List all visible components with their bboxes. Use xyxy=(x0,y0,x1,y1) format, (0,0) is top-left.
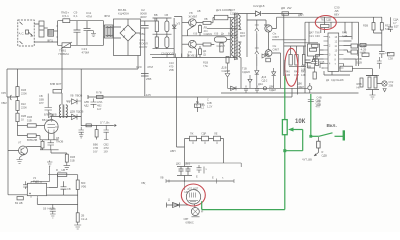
resistor R6 xyxy=(203,43,211,46)
switch resistor wire xyxy=(317,137,319,141)
V8 emitter xyxy=(188,26,195,36)
ladder top bus xyxy=(153,18,172,21)
svg-text:ХР6: ХР6 xyxy=(1,91,6,95)
svg-text:R6В: R6В xyxy=(357,82,362,86)
plug T bar xyxy=(343,130,345,140)
svg-text:ЗООУ: ЗООУ xyxy=(139,45,147,49)
diode D2B xyxy=(231,86,237,90)
anode feed stub xyxy=(197,97,199,104)
svg-text:51В: 51В xyxy=(70,159,75,163)
svg-text:СУ2: СУ2 xyxy=(389,80,394,84)
far right drops xyxy=(374,17,391,27)
svg-text:СДА: СДА xyxy=(393,18,399,22)
transistor V8 internals xyxy=(191,20,194,26)
R63 vertical xyxy=(360,78,363,87)
bridge rectifier box xyxy=(114,19,141,56)
svg-text:ПК: ПК xyxy=(190,132,194,136)
svg-text:ТК6: ТК6 xyxy=(315,31,320,35)
junction dot xyxy=(283,149,286,152)
resistor R45 xyxy=(316,59,319,66)
svg-text:2W: 2W xyxy=(287,6,292,10)
wire module to FL1 xyxy=(44,27,48,29)
VL1 internals xyxy=(185,182,199,202)
svg-text:R ПК: R ПК xyxy=(96,91,102,95)
svg-text:7: 7 xyxy=(335,63,337,66)
cap C42 xyxy=(308,100,314,102)
svg-text:СВ: СВ xyxy=(39,94,43,98)
right small box СДВ xyxy=(351,50,358,54)
V8 collector wire xyxy=(196,22,203,24)
fusible resistor F2 xyxy=(202,136,209,141)
grid wire xyxy=(18,125,28,127)
ground R15 xyxy=(64,162,71,170)
svg-text:Дх: Дх xyxy=(221,32,225,36)
Q5 Q6 wires xyxy=(264,14,303,89)
box top wire xyxy=(31,166,50,181)
T1 primary leads xyxy=(233,18,234,58)
svg-text:С20: С20 xyxy=(136,65,142,69)
XS2 triangle xyxy=(383,89,386,92)
svg-text:СхЕМ1: СхЕМ1 xyxy=(204,32,213,36)
svg-text:х.: х. xyxy=(222,177,224,180)
svg-text:СДЕ: СДЕ xyxy=(326,18,332,22)
svg-text:ДВП: ДВП xyxy=(298,13,303,17)
svg-text:47М: 47М xyxy=(86,15,92,19)
small rect C38 xyxy=(388,53,395,56)
diode V24 xyxy=(66,99,81,104)
svg-text:ДВ6: ДВ6 xyxy=(269,85,274,89)
diode D18 xyxy=(256,11,261,16)
transistor V10 circle xyxy=(189,40,197,48)
svg-text:1кУ: 1кУ xyxy=(97,107,102,111)
caps cluster C78 C79 xyxy=(177,167,192,183)
svg-text:Д: Д xyxy=(168,198,170,202)
svg-text:ЛЕ: ЛЕ xyxy=(214,132,218,136)
ground x77 xyxy=(74,222,81,229)
black feed above green xyxy=(284,60,286,76)
svg-text:Д47: Д47 xyxy=(309,31,314,35)
filter FL1 xyxy=(48,29,54,36)
resistor R60 xyxy=(76,180,79,190)
resistor drop xyxy=(96,125,98,129)
secondary h-wire w2 xyxy=(284,42,319,44)
filter FL2 xyxy=(105,25,114,38)
svg-text:НВП: НВП xyxy=(170,149,176,153)
cap CC2 xyxy=(255,86,259,94)
resistor R54 xyxy=(372,23,375,31)
control left vertical xyxy=(174,17,182,58)
svg-text:R45: R45 xyxy=(320,60,325,64)
R66 top bus xyxy=(366,75,379,77)
svg-text:51В: 51В xyxy=(27,119,32,123)
surge module box xyxy=(39,21,44,37)
svg-text:Д2А: Д2А xyxy=(258,82,263,86)
svg-text:СД-УАН28: СД-УАН28 xyxy=(331,78,344,82)
svg-text:Д1В: Д1В xyxy=(222,66,227,70)
svg-text:ПАОВ: ПАОВ xyxy=(56,140,64,144)
svg-text:11: 11 xyxy=(335,45,338,48)
svg-text:4: 4 xyxy=(329,63,331,66)
resistor under switch xyxy=(317,141,320,148)
svg-text:ЛВ: ЛВ xyxy=(70,94,74,98)
svg-text:СхЕМ7: СхЕМ7 xyxy=(217,44,226,48)
tube VL1 envelope xyxy=(186,190,200,204)
vertical x77 xyxy=(77,175,79,180)
resistor R22 xyxy=(17,96,19,100)
cap drop 2 xyxy=(104,125,109,139)
rect below C3B xyxy=(313,72,316,79)
svg-text:ОМ7: ОМ7 xyxy=(273,35,280,39)
svg-text:МЛТ: МЛТ xyxy=(56,82,62,86)
svg-text:С21: С21 xyxy=(309,34,314,38)
svg-text:ПОВ2Н: ПОВ2Н xyxy=(59,52,69,56)
svg-text:A.C.: A.C. xyxy=(19,32,25,36)
svg-text:ЧУТ_ВВ: ЧУТ_ВВ xyxy=(302,158,312,162)
control wire y28.7 xyxy=(207,28,237,30)
svg-text:Вх: Вх xyxy=(228,32,232,36)
svg-text:V7: V7 xyxy=(18,141,22,145)
svg-text:R: R xyxy=(322,150,324,154)
svg-text:КЦ405А: КЦ405А xyxy=(118,12,129,16)
svg-text:400У: 400У xyxy=(140,15,147,19)
IC box KA1 xyxy=(27,183,46,195)
row end drops xyxy=(185,139,224,164)
V10 base wire xyxy=(182,43,189,45)
IC DA2 body xyxy=(328,33,339,71)
wire box bottom to x77 xyxy=(47,194,78,196)
wire AC to module xyxy=(34,24,57,42)
primary loop wires xyxy=(57,21,104,46)
svg-text:Д2: Д2 xyxy=(326,78,330,82)
svg-text:Е: Е xyxy=(212,176,214,180)
zener VD2 xyxy=(255,48,259,57)
cap C40 xyxy=(388,27,393,32)
transistor Q6 xyxy=(265,50,272,57)
zener VD1 xyxy=(255,25,259,34)
fusible row bus xyxy=(185,138,224,140)
resistor R2 xyxy=(214,15,228,19)
svg-text:СВ: СВ xyxy=(67,187,71,191)
fusible resistor F3 xyxy=(214,136,221,141)
tube right cluster xyxy=(197,165,205,174)
R66 ground xyxy=(370,95,376,99)
pre-IC resistor xyxy=(310,48,317,51)
resistor R61 xyxy=(76,213,79,222)
svg-text:4,7: 4,7 xyxy=(393,21,397,25)
svg-text:ГДР: ГДР xyxy=(202,132,207,136)
plug prong top xyxy=(20,22,23,25)
T2 core xyxy=(62,105,65,119)
transformer T1 core xyxy=(235,13,237,60)
svg-text:ВВ6: ВВ6 xyxy=(93,143,98,147)
bottom bus right block xyxy=(221,92,359,94)
R5 to R2 xyxy=(211,18,214,23)
resistor Ra vertical xyxy=(199,24,201,25)
svg-text:Вх: Вх xyxy=(196,100,200,104)
svg-text:(2): (2) xyxy=(203,52,206,56)
svg-text:ЗА: ЗА xyxy=(202,103,206,107)
secondary h-wire w3 xyxy=(284,45,307,47)
svg-text:47М: 47М xyxy=(93,146,98,150)
svg-text:10В: 10В xyxy=(207,101,212,105)
green circuit xyxy=(202,60,344,210)
left L wire xyxy=(8,151,27,195)
cap on mid bus xyxy=(91,99,97,109)
transistor V8 circle xyxy=(189,19,197,27)
IC bottom wire xyxy=(324,71,350,75)
potentiometer 10K body xyxy=(282,120,287,135)
svg-text:ПДОВ: ПДОВ xyxy=(76,110,84,114)
svg-text:СВТ: СВТ xyxy=(184,217,189,221)
bus resistor R19b xyxy=(97,95,104,98)
svg-text:ХВ(: ХВ( xyxy=(141,181,145,185)
VL1 base circle xyxy=(191,208,199,216)
svg-text:УФБ: УФБ xyxy=(81,185,87,189)
resistor bottom bus xyxy=(289,66,306,94)
diode D16 xyxy=(255,66,259,88)
svg-text:1: 1 xyxy=(329,36,331,39)
capacitor C17 xyxy=(141,21,149,96)
node circle xyxy=(263,87,266,90)
tube top wire xyxy=(51,117,81,120)
diode left of tube xyxy=(167,203,189,208)
right block outer box xyxy=(305,22,359,93)
svg-text:Х.В: Х.В xyxy=(214,32,218,36)
control mid bus xyxy=(182,35,237,37)
svg-text:220К: 220К xyxy=(21,106,27,110)
svg-text:СхЕМ8: СхЕМ8 xyxy=(222,69,231,73)
right vertical x81 xyxy=(80,69,82,126)
svg-text:МЛОВ: МЛОВ xyxy=(49,113,57,117)
svg-text:47М: 47М xyxy=(147,65,153,69)
red ellipse bottom xyxy=(181,184,205,206)
svg-text:АВ: АВ xyxy=(197,9,201,13)
cap C3B xyxy=(311,58,318,72)
ladder mid tap xyxy=(153,33,172,35)
cap to ground xyxy=(50,204,56,218)
tube V1 internals xyxy=(48,120,59,134)
green switch feed xyxy=(310,94,312,136)
svg-text:С3В: С3В xyxy=(307,61,312,65)
diode D17 column xyxy=(272,68,276,88)
svg-text:4В2: 4В2 xyxy=(97,104,102,108)
resistor R57 xyxy=(380,23,383,31)
IC pins left xyxy=(324,37,329,69)
resistor R9 xyxy=(156,32,158,37)
svg-text:+125: +125 xyxy=(144,93,151,97)
svg-text:ДК2: ДК2 xyxy=(186,162,191,166)
capacitor C19 xyxy=(166,32,168,37)
left top bus xyxy=(7,56,138,70)
primary bus bottom xyxy=(152,57,237,59)
svg-text:0,1: 0,1 xyxy=(74,14,79,18)
cap C8 column xyxy=(45,94,52,113)
resistor R15 xyxy=(65,154,68,162)
svg-text:R5В: R5В xyxy=(363,24,368,28)
V10 emitter xyxy=(194,47,196,57)
svg-text:Т2: Т2 xyxy=(67,100,71,104)
svg-text:Д2В: Д2В xyxy=(70,110,75,114)
potentiometer wiper arrow xyxy=(291,129,303,131)
R row 53 xyxy=(362,53,369,56)
svg-text:R40: R40 xyxy=(285,70,290,74)
capacitor C20 xyxy=(141,74,149,77)
resistor Rk xyxy=(41,141,44,148)
svg-text:1РУ: 1РУ xyxy=(39,101,44,105)
svg-text:2В: 2В xyxy=(81,214,84,218)
switch wire xyxy=(311,135,319,137)
svg-text:Е: Е xyxy=(196,175,198,179)
wire to R66 pair xyxy=(344,64,373,76)
secondary inner loop xyxy=(247,20,266,25)
svg-text:13: 13 xyxy=(335,36,338,39)
svg-text:470: 470 xyxy=(169,65,174,69)
AC input box xyxy=(18,20,34,46)
svg-text:Х.В: Х.В xyxy=(193,32,197,36)
svg-text:Т1В: Т1В xyxy=(242,67,247,71)
svg-text:СВ: СВ xyxy=(165,13,169,17)
lower secondary wire xyxy=(228,87,308,89)
svg-text:ХВМ: ХВМ xyxy=(1,101,7,105)
grommet node xyxy=(308,86,312,90)
filament rail xyxy=(81,124,113,126)
zener column wires xyxy=(256,34,258,66)
svg-text:16У: 16У xyxy=(104,150,109,154)
svg-text:Д21: Д21 xyxy=(216,8,222,12)
svg-text:25В: 25В xyxy=(169,68,174,72)
svg-text:12: 12 xyxy=(335,41,338,44)
row ticks xyxy=(193,142,217,145)
ladder lower wire xyxy=(150,54,174,56)
svg-text:220К: 220К xyxy=(21,92,27,96)
svg-text:ДК2: ДК2 xyxy=(176,162,181,166)
cathode cluster top bus xyxy=(40,134,59,140)
ladder bottom bus xyxy=(153,18,175,57)
svg-text:1Г Г_Вх: 1Г Г_Вх xyxy=(100,121,110,125)
T1 secondary winding top xyxy=(238,15,240,29)
svg-text:7,5к: 7,5к xyxy=(203,64,209,68)
svg-text:100: 100 xyxy=(317,99,322,103)
svg-text:25В: 25В xyxy=(389,84,394,88)
resistor R18 below control xyxy=(226,57,229,64)
resistor R9 xyxy=(27,124,36,127)
cap C24 xyxy=(305,60,316,68)
oval module xyxy=(214,37,226,42)
V7 base wire xyxy=(8,97,19,151)
green bottom run xyxy=(202,201,285,209)
svg-text:С22: С22 xyxy=(253,4,259,8)
resistor R19 xyxy=(53,90,62,94)
resistor R8 xyxy=(156,18,158,21)
svg-text:С9 ПООЛ: С9 ПООЛ xyxy=(161,52,174,56)
KA1 pins xyxy=(25,181,49,197)
Q6 base rect xyxy=(266,58,271,62)
T1 secondary winding bottom xyxy=(238,42,240,56)
diode V3 xyxy=(172,25,176,28)
left bus bridge xyxy=(291,88,293,97)
secondary left drop xyxy=(246,14,248,58)
svg-text:5,1В: 5,1В xyxy=(357,61,363,65)
svg-text:R43: R43 xyxy=(301,70,306,74)
svg-text:16В: 16В xyxy=(307,65,312,69)
svg-text:НДТ: НДТ xyxy=(193,187,199,191)
T52 rect xyxy=(321,25,330,28)
upper black wire xyxy=(185,163,242,167)
resistor R66b xyxy=(374,77,377,88)
diode D20 xyxy=(262,54,266,58)
svg-text:С10: С10 xyxy=(169,61,174,65)
svg-text:ДСТ: ДСТ xyxy=(230,8,236,12)
cluster bottom bus xyxy=(40,149,59,151)
svg-text:ЛВ: ЛВ xyxy=(160,176,164,180)
svg-text:Вкл.: Вкл. xyxy=(327,123,337,129)
svg-text:R5В: R5В xyxy=(357,57,362,61)
capacitor C9 xyxy=(74,21,81,46)
small tube V1 xyxy=(45,120,59,134)
svg-text:14В: 14В xyxy=(301,73,306,77)
DC top bus xyxy=(141,20,156,22)
diode D1B xyxy=(225,63,230,88)
red ellipse mid xyxy=(285,48,298,86)
resistor R51 xyxy=(58,173,67,177)
FL1 to loop xyxy=(54,30,58,32)
resistor R26 xyxy=(17,110,19,113)
top rail xyxy=(303,16,383,18)
svg-text:R: R xyxy=(357,53,359,57)
resistor R66a xyxy=(368,77,371,88)
right wires from IC xyxy=(344,37,357,67)
chain top xyxy=(17,69,19,87)
svg-text:800: 800 xyxy=(81,181,86,185)
svg-text:ВВ: ВВ xyxy=(154,13,158,17)
V8 base wire xyxy=(182,22,189,24)
svg-text:16У: 16У xyxy=(93,150,98,154)
cathode down wire xyxy=(51,150,67,154)
svg-text:R1В: R1В xyxy=(203,61,208,65)
diode V22 xyxy=(49,113,54,118)
T1 secondary leads xyxy=(238,14,244,89)
resistor R41 xyxy=(295,46,297,55)
svg-text:R__ НВ: R__ НВ xyxy=(56,168,65,172)
resistor R11 xyxy=(18,126,28,136)
svg-text:Б2Т: Б2Т xyxy=(394,25,399,29)
cap C41 xyxy=(377,57,382,69)
svg-text:ОМ7: ОМ7 xyxy=(273,48,280,52)
resistor R38 xyxy=(282,12,289,15)
capacitor C18 xyxy=(166,18,168,21)
svg-text:НАДВ: НАДВ xyxy=(48,207,55,211)
switch right contact xyxy=(335,135,344,137)
cap C8b xyxy=(61,181,67,195)
svg-text:6ЛВ6С: 6ЛВ6С xyxy=(186,221,194,225)
svg-text:25В: 25В xyxy=(317,103,322,107)
pre-IC box xyxy=(308,44,320,56)
svg-text:СДЕЛ: СДЕЛ xyxy=(269,88,276,92)
diode V26 xyxy=(66,114,81,119)
box right riser xyxy=(49,175,58,188)
transistor V7 xyxy=(19,146,28,155)
R66 bottom bus xyxy=(366,90,379,96)
long vertical to tube xyxy=(176,57,178,147)
svg-text:В2 НВ: В2 НВ xyxy=(15,201,23,205)
svg-text:-4,2В: -4,2В xyxy=(360,48,366,52)
svg-text:1ВВ: 1ВВ xyxy=(39,98,44,102)
rect on filament rail xyxy=(86,124,91,127)
svg-text:4Д2: 4Д2 xyxy=(84,104,89,108)
svg-text:V3: V3 xyxy=(177,22,181,26)
svg-text:2: 2 xyxy=(329,45,331,48)
plug symbol xyxy=(26,30,33,36)
